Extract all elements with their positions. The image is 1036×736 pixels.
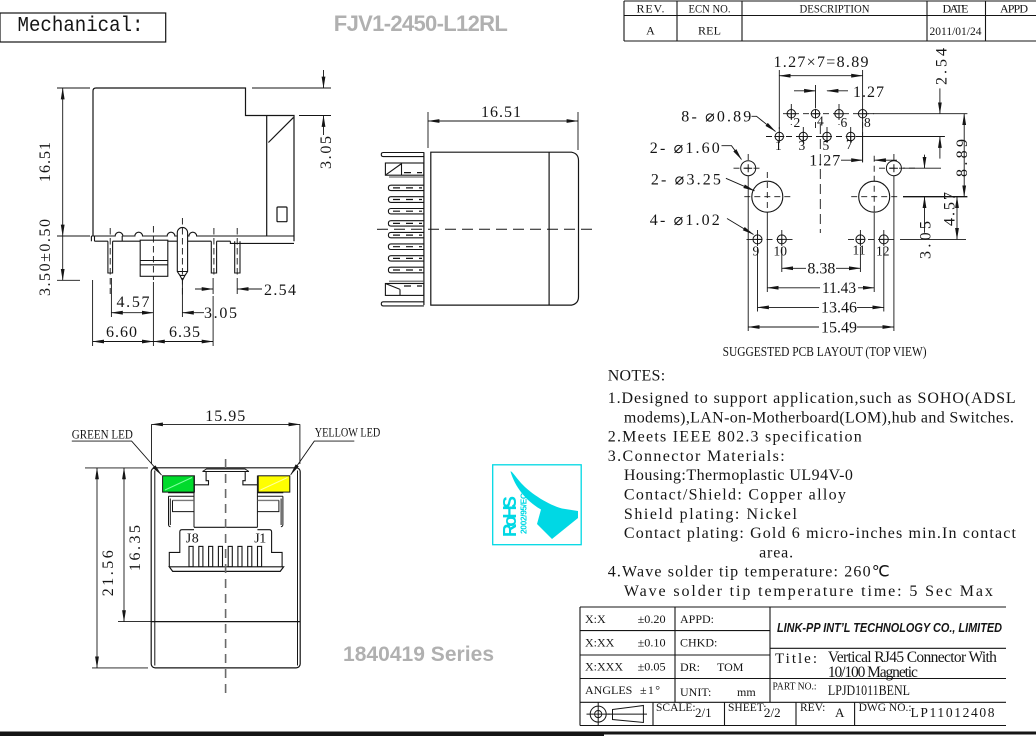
front view top latch window [203, 469, 249, 472]
svg-text:±0.20: ±0.20 [638, 612, 666, 626]
svg-text:3.50±0.50: 3.50±0.50 [37, 219, 54, 296]
svg-text:3: 3 [799, 138, 806, 153]
title block grid [580, 607, 1006, 726]
svg-text:±0.05: ±0.05 [638, 660, 666, 674]
side view dim 6.60 text [106, 324, 137, 341]
middle view dim 16.51 text [481, 104, 521, 121]
svg-text:3.05: 3.05 [318, 136, 335, 169]
side view dim 6.35 [153, 296, 213, 346]
RoHS swoosh mark [511, 471, 579, 539]
pcb dim 1.27 top [794, 85, 848, 108]
svg-text:2/2: 2/2 [764, 705, 781, 720]
svg-text:±0.10: ±0.10 [638, 636, 666, 650]
pcb layout center axis dashed [819, 124, 821, 233]
RoHS logo box [493, 465, 582, 545]
svg-text:Contact plating: Gold 6 micro-: Contact plating: Gold 6 micro-inches min… [624, 525, 1017, 542]
svg-text:DR:: DR: [680, 660, 700, 674]
svg-text:3.05: 3.05 [204, 305, 237, 322]
middle view top shield tab [385, 163, 424, 177]
svg-text:SCALE:: SCALE: [656, 702, 696, 714]
pcb bottom extension lines [748, 176, 894, 331]
svg-text:13.46: 13.46 [821, 300, 857, 317]
pcb dim 3.05 right [924, 155, 926, 233]
front view yellow LED [258, 476, 290, 492]
pcb layout pin holes row 2-4-6-8 [786, 109, 867, 119]
svg-text:11.43: 11.43 [822, 280, 856, 297]
svg-text:1840419 Series: 1840419 Series [343, 643, 494, 666]
front view dim 21.56 [85, 468, 148, 668]
front view bottom bar [169, 567, 283, 572]
svg-text:1: 1 [775, 138, 782, 153]
side view dim 6.35 text [169, 324, 200, 341]
middle view top flange [381, 153, 424, 157]
pcb dim 4.57 right [956, 197, 958, 240]
pcb layout big holes centerlines [744, 156, 899, 213]
svg-text:2: 2 [794, 115, 801, 130]
svg-text:APPD:: APPD: [680, 612, 714, 626]
front view green led label [72, 441, 162, 475]
pcb layout bottom holes row centerline [747, 230, 898, 247]
revision table [624, 1, 1036, 41]
side view dim 3.05 bottom [182, 281, 204, 317]
svg-text:LP11012408: LP11012408 [911, 705, 995, 720]
svg-text:modems),LAN-on-Motherboard(LOM: modems),LAN-on-Motherboard(LOM),hub and … [624, 409, 1014, 426]
pcb layout pin numbers [753, 114, 890, 259]
pcb dim 1.27x7=8.89 [779, 70, 862, 162]
side view fixing block pin [140, 240, 168, 276]
Mechanical label text [18, 14, 144, 38]
svg-text:RoHS: RoHS [499, 496, 520, 537]
middle view contact teeth [388, 185, 424, 273]
svg-text:UNIT:: UNIT: [680, 685, 711, 699]
svg-text:FJV1-2450-L12RL: FJV1-2450-L12RL [334, 11, 508, 36]
svg-text:LINK-PP INT’L TECHNOLOGY CO.,: LINK-PP INT’L TECHNOLOGY CO., LIMITED [777, 620, 1003, 635]
gray series label 1840419 Series [343, 643, 494, 666]
svg-text:2- ⌀3.25: 2- ⌀3.25 [651, 172, 721, 189]
svg-text:DESCRIPTION: DESCRIPTION [800, 2, 870, 16]
svg-text:4.57: 4.57 [942, 192, 959, 226]
svg-text:2/1: 2/1 [695, 705, 712, 720]
svg-text:6.35: 6.35 [169, 324, 200, 341]
svg-text:15.95: 15.95 [205, 408, 245, 425]
svg-text:Contact/Shield: Copper alloy: Contact/Shield: Copper alloy [624, 487, 846, 504]
svg-text:21.56: 21.56 [100, 550, 117, 596]
svg-text:area.: area. [759, 544, 793, 561]
pcb layout callout 8-dia0.89 [752, 116, 776, 131]
title block bottom row texts [656, 702, 995, 720]
gray part number title FJV1-2450-L12RL [334, 11, 508, 36]
pcb layout shield holes dia 1.60 [741, 161, 902, 176]
side view pin 1 [108, 241, 113, 273]
front view right LED pocket steps [257, 476, 283, 528]
front view left LED pocket steps [168, 476, 194, 528]
side view dim 3.05 bottom text [204, 305, 237, 322]
Mechanical label box [0, 13, 166, 42]
side view dim 3.05 top right [252, 70, 331, 135]
pcb layout callout 2-dia3.25 [726, 178, 755, 191]
svg-text:1.27: 1.27 [809, 153, 840, 170]
front view dim 16.35 [118, 468, 151, 622]
pcb layout big holes dia 3.25 [752, 181, 890, 212]
svg-text:10: 10 [774, 244, 788, 259]
svg-text:SUGGESTED PCB LAYOUT (TOP VIEW: SUGGESTED PCB LAYOUT (TOP VIEW) [723, 345, 927, 360]
svg-text:8- ⌀0.89: 8- ⌀0.89 [681, 109, 751, 126]
pcb layout bottom holes dia 1.02 [753, 234, 889, 244]
pcb dim 13.46 [758, 306, 884, 308]
pcb dim 15.49 [748, 326, 894, 328]
svg-text:±1°: ±1° [640, 683, 660, 697]
svg-text:A: A [646, 24, 655, 38]
svg-text:2011/01/24: 2011/01/24 [930, 26, 982, 38]
pcb layout pin holes row 1-3-5-7 [774, 132, 855, 142]
side view bottom shell edge with bumps [91, 232, 294, 243]
revision table texts [637, 2, 1029, 39]
svg-text:A: A [835, 705, 845, 720]
front view center dashed line [225, 459, 227, 697]
svg-text:8: 8 [864, 115, 871, 130]
side view dim 16.51 text [37, 142, 54, 182]
pcb dim 8.89 right [963, 114, 965, 197]
title block title [773, 649, 998, 699]
svg-text:4- ⌀1.02: 4- ⌀1.02 [650, 212, 720, 229]
svg-text:1.Designed to support applicat: 1.Designed to support application,such a… [608, 390, 1016, 407]
pcb right ref lines [857, 114, 967, 240]
front view yellow led label [291, 441, 355, 475]
middle view horizontal centerline [377, 228, 592, 230]
side view dim 4.57 [111, 278, 153, 317]
svg-text:Title:: Title: [775, 651, 817, 667]
svg-text:9: 9 [753, 244, 760, 259]
pcb layout row centerlines dashed [766, 104, 874, 147]
svg-text:2- ⌀1.60: 2- ⌀1.60 [650, 140, 720, 157]
svg-text:10/100 Magnetic: 10/100 Magnetic [828, 664, 918, 681]
svg-text:12: 12 [876, 244, 890, 259]
middle view bottom flange [381, 302, 424, 306]
svg-text:8.38: 8.38 [807, 261, 835, 278]
svg-text:NOTES:: NOTES: [608, 368, 666, 385]
svg-text:LPJD1011BENL: LPJD1011BENL [828, 683, 910, 699]
sheet bottom border [0, 732, 1036, 736]
svg-text:PART NO.:: PART NO.: [773, 682, 817, 693]
side view dim 6.60 [93, 280, 154, 346]
svg-text:5: 5 [823, 138, 830, 153]
front view J8 J1 labels [186, 531, 266, 546]
svg-text:2.Meets IEEE 802.3 specificati: 2.Meets IEEE 802.3 specification [608, 429, 862, 446]
front view dim 15.95 [152, 424, 300, 464]
front view jack cavity [169, 472, 282, 567]
svg-text:1.27×7=8.89: 1.27×7=8.89 [774, 54, 869, 71]
svg-text:Shield plating: Nickel: Shield plating: Nickel [624, 506, 798, 523]
svg-text:16.35: 16.35 [127, 525, 144, 571]
svg-text:4.Wave solder tip temperature:: 4.Wave solder tip temperature: 260℃ [608, 564, 890, 581]
pcb dim 8.38 [782, 267, 861, 269]
side view dim 3.05 top right text [318, 136, 335, 169]
side view pin 3 [211, 241, 216, 273]
side view dim 3.50+-0.50 left [57, 236, 80, 280]
svg-text:SHEET:: SHEET: [728, 702, 766, 714]
svg-text:16.51: 16.51 [481, 104, 521, 121]
svg-text:Housing:Thermoplastic UL94V-0: Housing:Thermoplastic UL94V-0 [624, 467, 853, 484]
pcb dim 2.54 right [939, 88, 941, 158]
svg-text:REL: REL [698, 24, 721, 38]
side view locating post [177, 227, 187, 280]
svg-text:ANGLES: ANGLES [585, 683, 632, 697]
svg-text:CHKD:: CHKD: [680, 636, 717, 650]
side view dim 2.54 [195, 278, 262, 294]
svg-text:X:XX: X:XX [585, 636, 615, 650]
pcb dim 11.43 [767, 287, 874, 289]
side view pin 4 [235, 241, 240, 273]
middle view dim 16.51 [428, 112, 578, 150]
svg-text:GREEN LED: GREEN LED [72, 427, 133, 441]
front view contact comb [189, 546, 262, 566]
middle view bottom shield tab [385, 281, 424, 295]
svg-text:X:XXX: X:XXX [585, 660, 623, 674]
svg-text:DWG NO.:: DWG NO.: [859, 702, 912, 714]
svg-text:2.54: 2.54 [934, 48, 951, 85]
pcb layout shield holes centerlines [734, 154, 917, 168]
svg-text:REV.: REV. [637, 2, 665, 16]
side view centerlines dashed [110, 218, 237, 298]
svg-text:J8: J8 [186, 531, 199, 546]
title block company name [777, 620, 1003, 635]
projection symbol [587, 703, 648, 726]
svg-text:DATE: DATE [943, 2, 969, 16]
middle view teeth dashes [393, 173, 422, 286]
side view dim 4.57 text [117, 294, 150, 311]
svg-text:3.05: 3.05 [918, 221, 935, 259]
svg-text:2002/95/EC: 2002/95/EC [519, 493, 529, 534]
svg-text:ECN NO.: ECN NO. [689, 2, 731, 16]
svg-text:16.51: 16.51 [37, 142, 54, 182]
svg-text:Wave solder tip temperature ti: Wave solder tip temperature time: 5 Sec … [624, 583, 993, 600]
svg-text:6.60: 6.60 [106, 324, 137, 341]
svg-text:7: 7 [846, 137, 853, 152]
svg-text:Mechanical:: Mechanical: [18, 14, 144, 38]
svg-text:REV:: REV: [800, 702, 825, 714]
pcb layout callout 4-dia1.02 [727, 219, 754, 235]
svg-text:X:X: X:X [585, 612, 606, 626]
svg-text:11: 11 [853, 243, 866, 258]
svg-text:15.49: 15.49 [821, 320, 857, 337]
front view outer body [151, 468, 300, 668]
svg-text:mm: mm [737, 685, 756, 699]
notes text block [608, 368, 1017, 601]
side view body outline [93, 88, 294, 241]
pcb dim 1.27 second [841, 132, 897, 163]
svg-text:4.57: 4.57 [117, 294, 150, 311]
svg-text:YELLOW LED: YELLOW LED [315, 425, 381, 439]
RoHS logo text [499, 493, 529, 537]
side view dim 16.51 left [57, 88, 90, 236]
svg-text:6: 6 [841, 115, 848, 130]
svg-text:8.89: 8.89 [954, 139, 971, 177]
side view dim 3.50+-0.50 text [37, 219, 54, 296]
svg-text:J1: J1 [254, 531, 266, 546]
middle view body [424, 152, 579, 305]
svg-text:APPD: APPD [1000, 2, 1028, 16]
svg-text:TOM: TOM [717, 660, 744, 674]
side view dim 2.54 text [264, 282, 296, 299]
pcb layout callout 2-dia1.60 [722, 146, 742, 160]
front view green LED [163, 476, 195, 492]
pcb caption [723, 345, 927, 360]
title block tolerance texts [585, 612, 756, 699]
svg-text:3.Connector Materials:: 3.Connector Materials: [608, 448, 785, 465]
svg-text:2.54: 2.54 [264, 282, 296, 299]
svg-text:1.27: 1.27 [853, 84, 884, 101]
